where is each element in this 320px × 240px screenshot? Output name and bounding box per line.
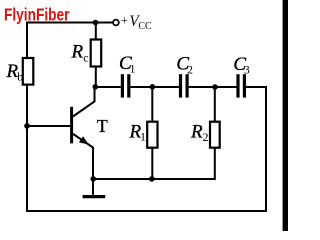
right edge black bar xyxy=(283,0,288,231)
wire R1 bottom xyxy=(151,148,153,179)
wire R2 bottom xyxy=(93,148,215,179)
svg-text:+: + xyxy=(121,14,128,28)
svg-text:c: c xyxy=(83,50,88,64)
node junction top Rc xyxy=(93,20,99,26)
wire ground stem xyxy=(92,179,94,195)
svg-text:b: b xyxy=(17,69,23,83)
node junction base xyxy=(24,123,30,129)
wire Rc top xyxy=(95,23,97,40)
wire outer loop (top rail, left rail, bottom rail, right rail) xyxy=(27,23,266,212)
svg-text:FlyinFiber: FlyinFiber xyxy=(4,4,70,24)
svg-text:R: R xyxy=(71,41,84,62)
svg-text:1: 1 xyxy=(140,129,146,143)
resistor R2 xyxy=(210,122,220,148)
node junction C1-R1 xyxy=(150,84,156,90)
label R2 xyxy=(190,122,209,144)
label R1 xyxy=(129,122,147,144)
wire R1 top xyxy=(151,87,153,122)
wire C3 to right rail xyxy=(246,86,266,88)
capacitor C2 xyxy=(179,74,189,97)
label C2 xyxy=(176,53,193,76)
capacitor C1 xyxy=(121,74,131,97)
svg-text:2: 2 xyxy=(203,130,209,144)
node junction collector xyxy=(93,84,99,90)
label C3 xyxy=(233,54,249,77)
wire R2 top xyxy=(214,87,216,122)
resistor Rc xyxy=(91,40,102,67)
node junction R1 bottom xyxy=(149,176,155,182)
capacitor C3 xyxy=(236,74,246,97)
svg-text:T: T xyxy=(97,116,108,136)
wire base xyxy=(27,125,70,127)
label Rb xyxy=(6,61,24,84)
resistor Rb xyxy=(23,58,34,85)
wire C1 to C2 xyxy=(130,86,179,88)
svg-text:3: 3 xyxy=(244,63,250,77)
node junction emitter xyxy=(90,176,96,182)
svg-text:CC: CC xyxy=(138,21,152,32)
label +Vcc xyxy=(121,13,152,32)
node junction C2-R2 xyxy=(212,84,218,90)
svg-text:R: R xyxy=(190,122,203,143)
svg-text:1: 1 xyxy=(130,62,136,76)
wire collector to C1 xyxy=(96,86,121,88)
wire C2 to C3 xyxy=(189,86,237,88)
wire Rc bottom xyxy=(95,67,97,88)
label C1 xyxy=(119,53,136,76)
svg-text:2: 2 xyxy=(187,62,193,76)
resistor R1 xyxy=(147,122,157,148)
ground xyxy=(83,195,106,198)
label Rc xyxy=(71,41,89,64)
transistor T xyxy=(72,87,95,179)
power terminal circle xyxy=(113,20,119,26)
